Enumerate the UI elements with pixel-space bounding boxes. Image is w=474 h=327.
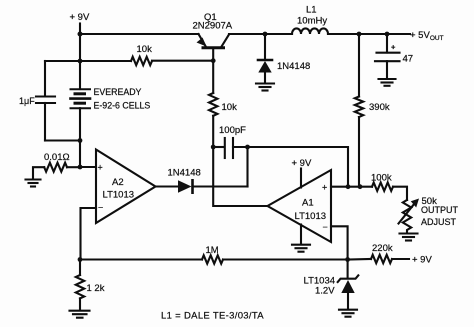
svg-text:A2: A2: [112, 177, 124, 188]
svg-text:L1 = DALE TE-3/03/TA: L1 = DALE TE-3/03/TA: [161, 311, 264, 322]
svg-text:−: −: [98, 203, 103, 213]
wire 10k to 100pF node: [212, 116, 214, 147]
node +9V top-left junction: [78, 32, 83, 37]
transistor Q1 2N2907A: [197, 34, 230, 61]
svg-text:0.01Ω: 0.01Ω: [44, 152, 70, 163]
resistor R7 1.2k: [76, 260, 84, 311]
op-amp A2 LT1013: [96, 150, 156, 224]
resistor R2 10k vertical: [209, 93, 217, 116]
ground at 0.01ohm: [26, 180, 41, 187]
resistor R1 10k horizontal: [131, 57, 152, 65]
svg-text:10k: 10k: [137, 44, 153, 55]
wire bottom rail mid segment: [223, 258, 348, 260]
node 100pF right junction: [245, 145, 250, 150]
svg-text:1N4148: 1N4148: [168, 168, 201, 179]
wire to 47uF node: [359, 33, 387, 35]
op-amp A1 LT1013: [268, 170, 332, 242]
battery B1 bottom lead: [79, 108, 81, 140]
ground at pot: [400, 234, 418, 241]
wire sense node to A2 + input: [80, 166, 96, 168]
node battery bottom junction: [78, 138, 83, 143]
resistor R3 390k vertical: [355, 34, 363, 187]
wire +9V junction down to battery node: [79, 34, 81, 61]
wire A2 - input left and down to feedback node: [81, 208, 97, 260]
svg-text:EVEREADY: EVEREADY: [94, 87, 142, 97]
svg-text:+ 9V: + 9V: [412, 255, 432, 266]
battery B1 EVEREADY top lead: [79, 61, 81, 89]
wire A1 +input right: [331, 186, 372, 188]
node catch diode junction: [263, 32, 268, 37]
wire 100pF node to A1 +input corner: [248, 147, 349, 187]
svg-text:1.2V: 1.2V: [315, 286, 335, 297]
wire to 220k: [348, 258, 371, 261]
diode D1 1N4148 vertical: [258, 34, 272, 83]
ground at A1: [292, 245, 310, 252]
node feedback left junction: [78, 257, 83, 262]
svg-text:+: +: [98, 163, 103, 173]
svg-text:390k: 390k: [369, 102, 390, 113]
wire diode line up to 100pF node: [246, 147, 248, 187]
svg-text:47: 47: [403, 54, 414, 65]
ground at LT1034: [339, 310, 357, 317]
wire battery node left to 1uF branch: [45, 60, 80, 62]
wire 10k to Q1 base node: [152, 60, 213, 62]
ground at 1.2k: [70, 311, 90, 318]
wire down crossing diode line to A1 output: [213, 147, 267, 206]
capacitor C1 1uF plates: [36, 95, 55, 97]
svg-text:220k: 220k: [372, 243, 393, 254]
potentiometer 50k output adjust: [399, 199, 420, 233]
node LT1034 junction: [345, 257, 350, 262]
node 390k top junction: [357, 32, 362, 37]
wire 0.01ohm left lead to ground: [33, 167, 44, 179]
inductor L1 10mHy: [292, 28, 328, 34]
battery B1 plates: [71, 89, 91, 108]
wire 100k to pot corner: [393, 187, 407, 200]
svg-text:ADJUST: ADJUST: [421, 217, 457, 227]
svg-text:1 2k: 1 2k: [87, 283, 105, 294]
wire 1uF branch down: [44, 61, 46, 96]
svg-text:1μF: 1μF: [19, 96, 35, 106]
wire 1uF bottom right to battery bottom node: [45, 139, 80, 141]
svg-text:2N2907A: 2N2907A: [193, 21, 233, 32]
svg-text:10mHy: 10mHy: [297, 16, 327, 27]
svg-text:+ 9V: + 9V: [292, 158, 312, 169]
wire battery bottom to sense node: [79, 141, 81, 168]
wire A1 -input right and down: [331, 226, 348, 259]
capacitor C2 100pF: [213, 138, 247, 158]
ground at C3: [379, 79, 396, 86]
node Q1 base junction: [211, 58, 216, 63]
wire Q1 base line down: [212, 61, 214, 93]
wire diode cathode to corner: [193, 185, 248, 187]
wire to +5V out: [387, 33, 410, 35]
wire 1uF bottom down: [44, 103, 46, 141]
svg-text:100pF: 100pF: [219, 125, 246, 136]
svg-text:1M: 1M: [206, 245, 219, 256]
svg-text:+: +: [391, 43, 396, 52]
wire top rail to Q1 emitter: [80, 33, 199, 35]
ground at D1: [256, 84, 274, 91]
node 47uF top junction: [385, 32, 390, 37]
wire A2 output: [156, 185, 179, 187]
wire bottom rail left segment: [80, 258, 202, 260]
diode D2 1N4148 horizontal: [178, 180, 193, 192]
wire A1 +9V stub: [300, 169, 302, 188]
svg-text:−: −: [323, 222, 328, 232]
node 100pF left junction: [211, 145, 216, 150]
wire +9V stub: [79, 24, 81, 35]
node A1 +input junction 2: [358, 184, 363, 189]
resistor R5 1M: [202, 255, 223, 263]
svg-text:OUTPUT: OUTPUT: [421, 205, 459, 215]
svg-text:+ 9V: + 9V: [70, 12, 90, 23]
capacitor C3 47uF: [375, 34, 400, 78]
svg-text:+: +: [322, 183, 327, 193]
resistor 0.01ohm: [44, 163, 67, 172]
resistor R6 220k: [371, 255, 392, 263]
wire inductor to 390k node: [328, 33, 359, 35]
svg-text:L1: L1: [306, 5, 317, 16]
wire 220k right lead: [392, 258, 409, 260]
zener LT1034 1.2V: [338, 260, 359, 310]
svg-text:100k: 100k: [371, 173, 392, 184]
svg-text:E-92-6 CELLS: E-92-6 CELLS: [94, 101, 151, 111]
wire 0.01ohm right lead: [67, 166, 80, 168]
svg-text:1N4148: 1N4148: [277, 61, 310, 72]
node A1 +input junction 1: [346, 184, 351, 189]
svg-text:LT1013: LT1013: [295, 211, 327, 222]
wire node to inductor: [265, 33, 292, 35]
svg-text:LT1013: LT1013: [103, 190, 135, 201]
wire Q1 collector to catch-diode node: [229, 33, 265, 35]
wire A1 ground stub: [300, 225, 302, 245]
node sense junction: [78, 165, 83, 170]
svg-text:10k: 10k: [222, 102, 238, 113]
resistor R4 100k: [372, 183, 393, 191]
wire horizontal 10k rail (battery node to Q1 base): [80, 60, 131, 62]
svg-text:A1: A1: [302, 198, 314, 209]
node battery top junction: [78, 59, 83, 64]
